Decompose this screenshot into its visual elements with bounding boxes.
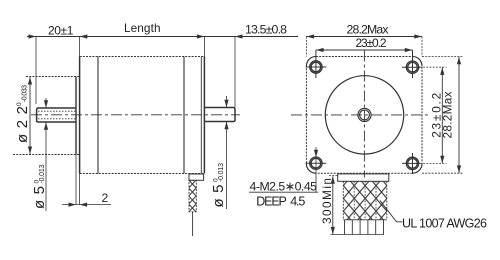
svg-text:ø22: ø22 [14,106,31,143]
svg-text:23±0.2: 23±0.2 [356,36,387,50]
svg-text:28.2Max: 28.2Max [347,22,390,36]
svg-text:Length: Length [124,21,161,35]
svg-text:DEEP 4.5: DEEP 4.5 [256,194,305,208]
svg-text:20±1: 20±1 [48,24,74,38]
svg-text:ø5: ø5 [210,185,227,208]
svg-text:13.5±0.8: 13.5±0.8 [245,23,287,37]
svg-text:2: 2 [102,191,109,205]
svg-text:ø5: ø5 [31,186,48,209]
svg-text:-0.013: -0.013 [39,164,46,183]
svg-text:300Min: 300Min [320,178,334,224]
svg-text:4-M2.5∗0.45: 4-M2.5∗0.45 [250,180,318,194]
svg-text:-0.033: -0.033 [22,85,29,102]
svg-text:-0.013: -0.013 [218,163,225,182]
svg-text:28.2Max: 28.2Max [441,91,455,138]
svg-text:UL 1007 AWG26: UL 1007 AWG26 [402,217,487,231]
